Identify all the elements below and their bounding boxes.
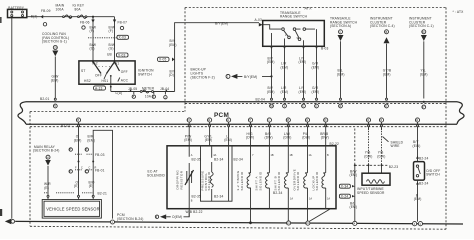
svg-text:SWITCH: SWITCH — [138, 72, 152, 76]
Y/B shielded pair to input/turbine sensor — [369, 128, 382, 165]
svg-text:X-34: X-34 — [341, 185, 349, 189]
shield wire dashed lines — [354, 129, 356, 166]
svg-text:(G): (G) — [90, 46, 95, 50]
transaxle range switch — [255, 11, 325, 46]
ground symbol battery negative — [5, 219, 12, 225]
svg-text:(D): (D) — [169, 73, 174, 77]
pin Y/B 1 — [366, 118, 370, 122]
svg-text:FB-06: FB-06 — [80, 21, 90, 25]
svg-text:B2-35: B2-35 — [192, 195, 201, 199]
svg-text:(EM): (EM) — [383, 73, 391, 77]
left edge scan artifacts — [0, 17, 2, 23]
O/D off switch — [414, 162, 441, 181]
pin P/W — [187, 118, 191, 122]
svg-text:SOLENOID: SOLENOID — [147, 173, 165, 177]
svg-text:FB-09: FB-09 — [41, 9, 51, 13]
wire B/Y — [271, 46, 273, 76]
wire drop B/W(F) right — [114, 17, 116, 61]
svg-text:C: C — [86, 171, 88, 174]
svg-text:1A: 1A — [309, 154, 312, 157]
svg-text:1B: 1B — [271, 154, 274, 157]
svg-text:SPEED SENSOR: SPEED SENSOR — [357, 191, 385, 195]
svg-text:X-03: X-03 — [119, 36, 127, 40]
svg-text:* : ATX: * : ATX — [453, 10, 465, 14]
svg-text:PCM: PCM — [214, 112, 229, 119]
svg-text:B2-35: B2-35 — [192, 158, 201, 162]
svg-text:(E): (E) — [89, 184, 94, 188]
ground line end circles 13 14 — [413, 222, 417, 226]
svg-text:1A: 1A — [327, 198, 330, 201]
svg-text:RANGE SWITCH: RANGE SWITCH — [280, 15, 308, 19]
shield drain wire B/W X-34 X-24 B/L — [354, 165, 356, 221]
svg-text:B2-01: B2-01 — [40, 97, 49, 101]
svg-text:(F): (F) — [109, 29, 114, 33]
svg-text:(EM): (EM) — [350, 173, 358, 177]
svg-text:10A: 10A — [145, 95, 152, 99]
svg-text:(EM): (EM) — [420, 73, 428, 77]
svg-text:FB-01: FB-01 — [95, 169, 105, 173]
svg-text:SOLENOID: SOLENOID — [207, 171, 211, 190]
pin B/O — [267, 118, 271, 122]
svg-text:(EM): (EM) — [312, 90, 320, 94]
svg-text:HS2: HS2 — [84, 79, 91, 83]
svg-text:(EM): (EM) — [299, 90, 307, 94]
PCM ground bus line — [15, 221, 463, 224]
svg-text:B2-22: B2-22 — [330, 142, 339, 146]
dropping resistor column — [175, 146, 201, 209]
svg-text:L(D): L(D) — [116, 91, 123, 95]
connector X-05 on riser — [158, 57, 170, 61]
PCM band — [18, 102, 464, 124]
PCM bottom pins — [61, 118, 420, 130]
svg-text:(SECTION B-24): (SECTION B-24) — [33, 149, 59, 153]
svg-text:C: C — [89, 167, 91, 170]
svg-text:(EM): (EM) — [87, 138, 95, 142]
svg-text:ACC: ACC — [121, 79, 129, 83]
svg-text:(EM): (EM) — [267, 90, 275, 94]
svg-text:(EM): (EM) — [74, 138, 82, 142]
wire L/Y — [303, 46, 305, 98]
battery negative wire — [11, 18, 13, 219]
battery — [8, 6, 27, 18]
svg-text:(EM): (EM) — [281, 90, 289, 94]
O(EM) arrow ref on ground line — [155, 215, 158, 218]
input/turbine speed sensor — [357, 173, 390, 195]
inner pressure control solenoid box — [201, 146, 233, 201]
wire B/Y riser to transaxle range switch — [175, 23, 259, 92]
svg-text:(EM): (EM) — [224, 138, 232, 142]
ATX label on dashed boundary — [302, 5, 318, 11]
svg-text:(DW): (DW) — [321, 136, 329, 140]
pin top B/L — [340, 98, 342, 100]
svg-text:100A: 100A — [56, 8, 65, 12]
svg-text:(EM): (EM) — [350, 205, 358, 209]
svg-text:(EM): (EM) — [51, 78, 59, 82]
svg-text:FB-03: FB-03 — [95, 153, 105, 157]
fuse row FB-01 — [69, 170, 72, 173]
svg-text:(DW): (DW) — [246, 136, 254, 140]
ignition switch — [79, 61, 135, 84]
svg-text:B2-24: B2-24 — [419, 157, 428, 161]
svg-text:X-24: X-24 — [341, 195, 349, 199]
fuse row FB-03 — [69, 148, 72, 151]
svg-text:B2-34: B2-34 — [273, 191, 282, 195]
svg-text:1A: 1A — [290, 198, 293, 201]
svg-text:(EM): (EM) — [169, 43, 177, 47]
pin L/W — [286, 118, 290, 122]
svg-text:R: R — [95, 167, 97, 170]
svg-text:80A: 80A — [75, 8, 82, 12]
svg-text:RESISTOR: RESISTOR — [179, 170, 183, 189]
svg-text:HS1: HS1 — [102, 79, 109, 83]
transaxle range switch drops to PCM — [271, 47, 273, 49]
svg-text:B2-21: B2-21 — [98, 192, 107, 196]
svg-text:(EM): (EM) — [184, 138, 192, 142]
svg-text:SOLENOID: SOLENOID — [240, 171, 244, 190]
svg-text:1B: 1B — [290, 154, 293, 157]
vehicle speed sensor — [42, 200, 101, 219]
svg-text:(DW): (DW) — [302, 136, 310, 140]
svg-text:B/Y(EM): B/Y(EM) — [215, 22, 228, 26]
pin L — [227, 118, 231, 122]
svg-text:(EM): (EM) — [312, 65, 320, 69]
pin BR/B — [324, 118, 328, 122]
svg-text:SOLENOID: SOLENOID — [296, 171, 300, 190]
svg-text:(SECTION C-1): (SECTION C-1) — [409, 24, 434, 28]
svg-text:B(2): B(2) — [31, 15, 38, 19]
wire O (EM) from pin B2-01 down — [78, 130, 80, 146]
svg-text:OFF: OFF — [95, 73, 102, 77]
pin B/Y O/D — [415, 118, 419, 122]
svg-text:(EM): (EM) — [205, 138, 213, 142]
svg-text:R: R — [86, 149, 88, 152]
svg-text:(EM): (EM) — [267, 60, 275, 64]
connector A-13 under ignition switch — [110, 76, 112, 92]
svg-text:(SECTION C-4): (SECTION C-4) — [370, 24, 395, 28]
svg-text:ATX: ATX — [305, 6, 313, 10]
pressure control solenoid column — [200, 146, 243, 201]
pcm section ref on ground line — [112, 218, 114, 220]
junction — [92, 16, 94, 18]
svg-text:OFF: OFF — [121, 70, 128, 74]
solenoid returns to ground line — [249, 221, 252, 224]
pin top L/R — [284, 98, 286, 100]
svg-text:(F): (F) — [90, 29, 95, 33]
O/D off switch column — [417, 130, 419, 162]
svg-text:X-05: X-05 — [159, 58, 167, 62]
PCM top pins — [40, 97, 426, 109]
svg-text:B2-34: B2-34 — [214, 195, 223, 199]
svg-text:B2-24: B2-24 — [419, 182, 428, 186]
svg-text:B2-23: B2-23 — [389, 165, 398, 169]
svg-text:B2-04: B2-04 — [256, 98, 265, 102]
svg-text:SOLENOID: SOLENOID — [258, 171, 262, 190]
svg-text:WIRE: WIRE — [391, 144, 401, 148]
svg-text:X-03: X-03 — [118, 53, 126, 57]
meter fuse line — [127, 91, 174, 93]
EC-AT solenoid outer box — [167, 146, 336, 209]
wire drop B/W(F) left — [92, 17, 94, 61]
svg-text:(DW): (DW) — [364, 154, 372, 158]
svg-text:A-03: A-03 — [255, 18, 263, 22]
svg-text:(EM): (EM) — [281, 65, 289, 69]
solenoid columns — [236, 146, 254, 223]
svg-text:JB-04: JB-04 — [160, 87, 169, 91]
svg-text:A-13: A-13 — [95, 86, 103, 90]
svg-text:(EM): (EM) — [337, 73, 345, 77]
svg-text:UB: UB — [107, 53, 112, 57]
wire L(D) to meter fuse — [111, 91, 127, 93]
wire L/R — [284, 46, 286, 98]
connector row B2-21 — [44, 192, 93, 194]
bridge wire B/R and ground drop — [93, 130, 112, 218]
svg-text:SWITCH: SWITCH — [426, 173, 440, 177]
wire W/R to speed sensor — [47, 166, 49, 196]
svg-text:(DW): (DW) — [265, 136, 273, 140]
svg-text:(EW): (EW) — [413, 144, 421, 148]
svg-text:B2-34: B2-34 — [234, 158, 243, 162]
svg-text:B2-01: B2-01 — [61, 124, 70, 128]
svg-text:(SECTION B-24): (SECTION B-24) — [117, 217, 143, 221]
svg-text:(SECTION A): (SECTION A) — [330, 24, 351, 28]
pin P/L — [305, 118, 309, 122]
svg-text:(EM): (EM) — [299, 60, 307, 64]
svg-text:(SECTION F-2): (SECTION F-2) — [191, 75, 215, 79]
svg-text:(EM): (EM) — [414, 197, 422, 201]
wires PCM to solenoid box — [189, 130, 326, 146]
svg-text:W/B B2-22: W/B B2-22 — [186, 210, 203, 214]
svg-text:SOLENOID: SOLENOID — [315, 171, 319, 190]
svg-text:1A: 1A — [309, 198, 312, 201]
wire battery positive to fuses — [27, 16, 115, 18]
svg-text:(E): (E) — [74, 184, 79, 188]
pin GY/L — [208, 118, 212, 122]
ATX dashed boundary — [185, 7, 446, 9]
wire G/R — [316, 46, 318, 98]
svg-text:C: C — [81, 167, 83, 170]
wire W/B B2-22 exit to O(EM) — [188, 209, 190, 217]
svg-text:ST: ST — [81, 69, 85, 73]
pin top L/Y — [303, 98, 305, 100]
svg-text:B2-34: B2-34 — [214, 158, 223, 162]
svg-text:M: M — [47, 156, 49, 159]
svg-text:B-03: B-03 — [321, 47, 329, 51]
pin Y/B 2 — [379, 118, 383, 122]
svg-text:(E): (E) — [44, 186, 49, 190]
svg-text:(G): (G) — [109, 46, 114, 50]
pin H/G — [248, 118, 252, 122]
pin top G/R — [316, 98, 318, 100]
svg-text:JB-05: JB-05 — [128, 87, 137, 91]
svg-text:VEHICLE SPEED SENSOR: VEHICLE SPEED SENSOR — [46, 207, 99, 212]
svg-text:SOLENOID: SOLENOID — [277, 171, 281, 190]
joint connectors below meter fuse line — [134, 92, 166, 95]
wire G/W cooling fan to PCM — [54, 57, 56, 99]
svg-text:(DW): (DW) — [283, 136, 291, 140]
pin top GY/B — [386, 98, 388, 100]
svg-text:B/Y(EM): B/Y(EM) — [244, 75, 257, 79]
svg-text:O(EM): O(EM) — [172, 215, 182, 219]
pin top Y/L — [423, 101, 425, 103]
svg-text:(SECTION G-1): (SECTION G-1) — [42, 40, 67, 44]
svg-text:(DW): (DW) — [377, 154, 385, 158]
connector X-03 row upper — [88, 37, 117, 39]
svg-text:FB-07: FB-07 — [118, 21, 128, 25]
